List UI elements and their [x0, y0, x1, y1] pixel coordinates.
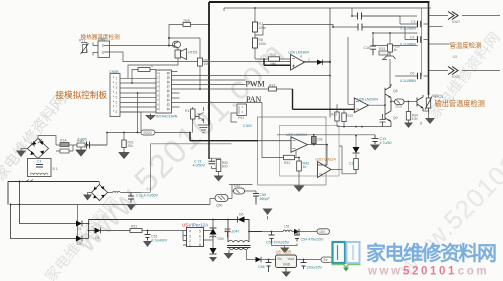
transistor Q8 top	[385, 84, 391, 105]
svg-text:5: 5	[116, 96, 118, 100]
wire R41 stubs	[298, 158, 300, 162]
ground right mid	[420, 122, 422, 125]
capacitor C55 560pF	[253, 194, 259, 205]
svg-text:9: 9	[157, 108, 159, 111]
thermistor RT1	[81, 43, 89, 55]
main board outline right edge	[428, 2, 430, 95]
svg-text:15: 15	[167, 95, 171, 98]
resistor R61 1K vertical	[198, 38, 203, 89]
capacitor C5 mid	[370, 38, 376, 55]
svg-text:1: 1	[308, 58, 310, 62]
ground under R20	[119, 148, 129, 159]
IC U5 VIPer12A	[183, 228, 207, 247]
wire buzzer top resistor net	[169, 25, 183, 46]
wire stub right y26.5	[429, 26, 443, 28]
svg-text:4.7u/400V: 4.7u/400V	[151, 239, 168, 243]
wire 18V rail	[262, 231, 317, 233]
svg-text:4: 4	[116, 91, 118, 95]
svg-text:5: 5	[199, 230, 201, 234]
op-amp U2C	[291, 137, 308, 153]
svg-text:L51: L51	[284, 225, 290, 229]
arrow IOUT1	[448, 12, 458, 20]
connector FS1	[237, 104, 247, 116]
wire buzzer bottom loop	[128, 60, 178, 78]
svg-text:R220: R220	[144, 131, 152, 135]
net label 5V	[321, 257, 333, 262]
winding marks on rail	[25, 180, 39, 182]
svg-text:接模拟控制板: 接模拟控制板	[56, 89, 108, 100]
pin numbers U5	[189, 230, 201, 248]
bus x209 lower segment	[208, 125, 210, 158]
svg-text:3: 3	[189, 235, 191, 239]
capacitor C30 ac input	[81, 142, 107, 149]
ground bus bottom	[198, 125, 209, 133]
svg-text:10K: 10K	[204, 62, 211, 66]
svg-text:6: 6	[199, 235, 201, 239]
resistor R34	[406, 102, 410, 123]
svg-text:PWM: PWM	[246, 80, 265, 89]
resistor R30	[388, 33, 393, 52]
svg-text:C6: C6	[410, 72, 414, 76]
wire PAN net	[172, 102, 263, 104]
wire junction x88	[88, 220, 90, 239]
diode D2	[76, 236, 89, 242]
wire U2D output	[331, 169, 342, 171]
svg-text:0.1U/BBN: 0.1U/BBN	[400, 79, 416, 83]
capacitor C4	[418, 36, 421, 42]
svg-text:1: 1	[189, 243, 191, 247]
vertical x348	[348, 37, 354, 104]
svg-text:D6: D6	[239, 213, 243, 217]
choke L2	[113, 191, 121, 192]
logo book icon left page	[333, 242, 346, 263]
capacitor C13	[372, 135, 379, 144]
svg-text:5V: 5V	[324, 258, 329, 262]
svg-text:8: 8	[116, 110, 118, 114]
svg-text:D2: D2	[77, 242, 81, 246]
resistor R8	[253, 32, 258, 59]
svg-text:U2D LM324: U2D LM324	[316, 158, 336, 162]
svg-text:CN6: CN6	[98, 38, 105, 42]
outer box oscillator A	[258, 117, 327, 185]
svg-text:.com: .com	[452, 266, 489, 278]
svg-text:500: 500	[222, 165, 228, 169]
svg-text:FS1: FS1	[238, 116, 244, 120]
pin labels FS1	[242, 105, 244, 114]
svg-text:100k: 100k	[259, 42, 267, 46]
cap C12	[380, 114, 386, 127]
svg-text:C31 4.7u/50V: C31 4.7u/50V	[136, 194, 159, 198]
svg-text:4k: 4k	[394, 48, 398, 52]
wire U2C minus inner	[258, 140, 291, 142]
capacitor C57	[301, 260, 307, 270]
wire PC1 to TL431	[228, 188, 234, 199]
svg-text:B 1: B 1	[53, 167, 58, 171]
svg-text:输出管温度检测: 输出管温度检测	[435, 99, 485, 108]
regulator U6 7805	[276, 255, 297, 272]
inner box oscillator B	[280, 126, 340, 177]
resistor R14 base	[191, 107, 196, 121]
wire IOUT2	[429, 70, 501, 72]
capacitor C56	[266, 260, 272, 273]
svg-text:L1047: L1047	[230, 230, 240, 234]
wire PWM thick to U2B	[293, 89, 355, 109]
wire cap3 feed	[395, 75, 429, 77]
wire viper input y230	[142, 230, 183, 232]
diode D11 on output	[317, 60, 323, 65]
capacitor C21	[209, 161, 216, 164]
node dot u2a in	[263, 58, 265, 60]
wire FS1 left bend	[231, 113, 237, 122]
resistor R42 vertical	[297, 161, 302, 184]
resistor R12 on PWM net	[269, 87, 277, 91]
wire thick U2C minus	[190, 133, 258, 141]
wire U2D minus link	[318, 145, 328, 165]
svg-text:14: 14	[167, 99, 171, 102]
svg-text:16: 16	[167, 90, 171, 93]
ground under C13	[370, 145, 380, 151]
diode D3	[89, 228, 131, 234]
ground under U1	[146, 114, 155, 120]
transformer T1	[227, 220, 251, 250]
wires CN2 to U1	[120, 78, 156, 112]
wire BD2 top	[99, 182, 101, 185]
rail lower y204	[11, 204, 211, 206]
op-amp U2B	[354, 98, 368, 113]
svg-text:10k: 10k	[317, 138, 323, 142]
svg-text:20k: 20k	[128, 144, 134, 148]
net label 18V	[317, 229, 330, 234]
wire U2B output	[369, 104, 386, 106]
svg-text:Vout: Vout	[288, 257, 294, 261]
resistor R10	[269, 57, 280, 61]
ground under C21R500	[214, 176, 224, 182]
wire U2A plus input thick	[264, 59, 291, 65]
svg-text:Q50: Q50	[216, 204, 223, 208]
wire R3 to C node	[85, 144, 107, 146]
IC U1 micro	[156, 70, 172, 113]
resistor R40 feedback	[312, 135, 317, 145]
pin numbers U1	[157, 72, 170, 111]
ground under C31	[127, 205, 136, 211]
node dot 169-45	[168, 45, 170, 47]
main board outline thick top edge	[209, 1, 430, 3]
diode D54	[256, 257, 262, 263]
resistor R6	[138, 68, 150, 72]
capacitor C51	[145, 231, 151, 241]
wire PAN drop to R41	[262, 103, 284, 158]
svg-text:17: 17	[167, 86, 171, 89]
net oval label N1	[107, 130, 191, 145]
svg-text:R31: R31	[379, 47, 385, 51]
wire node 169 branch y38	[169, 37, 200, 39]
svg-text:IOUT: IOUT	[452, 20, 460, 24]
inner rail wire y8	[224, 7, 431, 9]
bridge rectifier BD2	[92, 185, 108, 201]
svg-text:C16: C16	[364, 46, 371, 50]
svg-text:U6 7805: U6 7805	[276, 250, 293, 255]
svg-text:C4: C4	[410, 36, 414, 40]
arrow IOUT2	[448, 67, 458, 75]
bottom rail U2B block	[337, 126, 391, 128]
wire VCC stub x224	[223, 8, 225, 11]
wire U2A output	[305, 61, 331, 63]
svg-text:20: 20	[167, 72, 171, 75]
svg-text:5: 5	[157, 90, 159, 93]
node dot C21	[208, 157, 210, 159]
wire secondary right down	[247, 250, 254, 260]
primary snubber cap	[225, 229, 231, 238]
svg-text:U2B LM2904: U2B LM2904	[357, 98, 378, 102]
wire oval to R14 riser	[124, 119, 193, 140]
svg-text:IOUT: IOUT	[452, 75, 460, 79]
node dot R20 top	[123, 132, 125, 134]
wire snubber links	[56, 145, 77, 151]
buzzer B1	[175, 48, 187, 60]
capacitor C53	[269, 232, 275, 244]
wire pin4 drop to net oval	[137, 93, 139, 133]
wires U1 right pins long	[172, 72, 331, 108]
node dot 169-38	[168, 37, 170, 39]
junction dots misc	[384, 104, 386, 106]
ground under box	[294, 184, 305, 192]
svg-text:Q8: Q8	[393, 89, 398, 93]
ground secondary left	[224, 250, 234, 259]
wire y184 stub	[229, 185, 253, 189]
wire label feed y44	[429, 43, 450, 45]
svg-text:220u/16V: 220u/16V	[307, 266, 323, 270]
svg-text:6: 6	[151, 64, 153, 68]
node dot 137-93	[137, 92, 139, 94]
wire U2A minus input	[255, 58, 291, 60]
wire left col x10	[11, 205, 77, 239]
node dot 132-83	[131, 82, 133, 84]
wire to Q10 base	[409, 101, 418, 103]
svg-text:C53 470u/25V: C53 470u/25V	[266, 241, 290, 245]
line filter FL1	[28, 159, 52, 177]
svg-text:Q9: Q9	[393, 116, 398, 120]
svg-text:R12: R12	[269, 83, 275, 87]
capacitor C3	[418, 21, 421, 27]
svg-text:7: 7	[157, 99, 159, 102]
snubber coil	[210, 236, 217, 237]
node dot 87-145	[87, 144, 89, 146]
svg-text:18V: 18V	[319, 230, 326, 234]
svg-text:10K: 10K	[412, 117, 419, 121]
svg-text:4: 4	[157, 86, 159, 89]
ground BD2 left	[83, 193, 92, 201]
svg-text:R55: R55	[184, 19, 190, 23]
transistor Q5 buzzer driver	[169, 41, 181, 48]
wire CN1 pin2 bend	[110, 52, 331, 62]
logo url www.520101.com	[367, 266, 489, 278]
snubber resistor R1	[60, 143, 69, 147]
node dot 19-181	[19, 181, 21, 183]
svg-text:D1: D1	[77, 227, 81, 231]
thermistor RT3	[425, 95, 432, 112]
resistor R41 plus divider	[284, 155, 295, 159]
resistor R51	[130, 229, 142, 233]
ground 18V caps	[272, 244, 298, 254]
svg-text:19: 19	[167, 77, 171, 80]
svg-text:13: 13	[167, 104, 171, 107]
wire rail to primary right	[245, 220, 263, 232]
inductor L51	[283, 230, 292, 232]
node dot oval wire	[137, 132, 139, 134]
wire feedback lower y204 riser	[210, 199, 215, 205]
svg-text:C54 470u/25V: C54 470u/25V	[301, 238, 325, 242]
node dot R41	[298, 157, 300, 159]
ground under ZD5	[209, 257, 217, 262]
optocoupler PC1 oval	[215, 195, 228, 202]
resistor R3	[77, 143, 85, 147]
svg-text:560pF: 560pF	[260, 197, 271, 201]
transistor Q6	[195, 113, 204, 121]
svg-text:R51: R51	[131, 225, 137, 229]
svg-text:D3: D3	[95, 236, 99, 240]
svg-text:3: 3	[157, 81, 159, 84]
diode oval D13	[395, 99, 405, 105]
wire y45	[373, 45, 418, 47]
svg-text:12: 12	[167, 108, 171, 111]
svg-text:4.0/50V: 4.0/50V	[193, 164, 206, 168]
svg-text:IN74HC164N: IN74HC164N	[156, 115, 178, 119]
resistor R20 vertical	[122, 140, 126, 148]
logo book base green	[332, 265, 361, 272]
feedback rail y135	[277, 134, 375, 136]
transistor Q10 power	[417, 95, 423, 111]
wire bridge top loop	[21, 136, 56, 151]
resistor R43	[354, 153, 359, 174]
wire cap2 feed	[362, 27, 429, 40]
resistor R500	[216, 160, 221, 172]
node dot C51	[147, 230, 149, 232]
svg-text:1: 1	[116, 77, 118, 81]
svg-text:U2A LM2904: U2A LM2904	[288, 51, 309, 55]
node dot 408	[408, 101, 410, 103]
node dot 10-204	[10, 204, 12, 206]
capacitor C31	[128, 193, 141, 203]
svg-text:www.: www.	[367, 266, 408, 278]
svg-text:R32: R32	[331, 113, 337, 117]
logo book icon right page	[347, 242, 360, 263]
wire pin8 drop	[120, 112, 141, 132]
svg-text:C1: C1	[37, 160, 42, 164]
ground U6	[282, 272, 292, 278]
node dot u2d	[326, 144, 328, 146]
svg-text:18: 18	[167, 81, 171, 84]
svg-text:CN5B: CN5B	[109, 70, 119, 74]
wire R7R8 mid tap	[255, 25, 333, 36]
diode D14 vertical	[353, 136, 360, 153]
wire U2C output	[308, 144, 328, 146]
svg-text:R33: R33	[347, 114, 353, 118]
svg-text:R41: R41	[284, 161, 290, 165]
svg-text:U3: U3	[453, 55, 457, 59]
diode D5 up	[210, 228, 217, 235]
wire BD2 right with choke	[108, 192, 132, 194]
transistor Q7	[382, 52, 396, 60]
svg-text:D13: D13	[396, 105, 402, 109]
label T1	[225, 229, 240, 234]
wire top cap chain y16	[352, 8, 417, 16]
svg-text:D50: D50	[218, 237, 224, 241]
node dots feedback	[313, 134, 315, 136]
svg-text:6: 6	[116, 100, 118, 104]
svg-text:0.1U/BBN: 0.1U/BBN	[400, 43, 416, 47]
wire Q6 collector emitter	[203, 107, 205, 123]
wire R5 to bus	[191, 24, 210, 26]
svg-text:R1B: R1B	[77, 139, 84, 143]
svg-text:Vin: Vin	[277, 257, 282, 261]
svg-text:PAN: PAN	[246, 95, 261, 104]
node dot 356-135	[355, 135, 357, 137]
svg-text:4: 4	[300, 55, 302, 59]
svg-text:4.7u/50: 4.7u/50	[380, 141, 392, 145]
diode D6 on rail	[238, 217, 245, 223]
wire TL431 right	[245, 191, 257, 194]
thin vertical x422	[421, 8, 423, 76]
ground under C51	[143, 241, 152, 247]
diode D1	[76, 221, 89, 227]
svg-text:家电维修资料网: 家电维修资料网	[366, 241, 497, 265]
svg-text:7: 7	[116, 105, 118, 109]
svg-text:6: 6	[157, 95, 159, 98]
svg-text:2: 2	[157, 77, 159, 80]
main board outline thick left edge	[208, 2, 210, 125]
wire CN1 pin1 to node	[110, 45, 170, 47]
pins text U6	[277, 257, 294, 267]
svg-text:8: 8	[199, 243, 201, 247]
op-amp U2A	[291, 55, 305, 71]
svg-text:R14: R14	[185, 109, 191, 113]
svg-text:HTD5: HTD5	[188, 51, 197, 55]
svg-text:NTC3: NTC3	[434, 95, 443, 99]
svg-text:1: 1	[157, 72, 159, 75]
svg-text:管温度检测: 管温度检测	[450, 41, 482, 50]
ground under C30	[76, 145, 86, 156]
main AC rail y181	[8, 182, 99, 205]
rail viper top y219	[89, 219, 238, 221]
resistor R7	[253, 8, 258, 32]
snubber resistor R2	[60, 149, 69, 153]
zener ZD5	[210, 240, 217, 254]
node dots x330	[329, 61, 331, 63]
ground above output section	[263, 209, 273, 220]
op-amp U2D	[318, 162, 332, 178]
wire y33	[373, 33, 418, 38]
ground at bridge left	[16, 151, 26, 158]
svg-text:C56: C56	[258, 265, 265, 269]
wire U5 right to x213	[207, 220, 214, 241]
wire Q7 down	[389, 59, 391, 88]
resistor R5	[183, 23, 191, 27]
TL431 oval	[234, 188, 245, 194]
svg-text:R10: R10	[270, 53, 276, 57]
connector CN1	[93, 41, 110, 58]
svg-text:1k: 1k	[303, 165, 307, 169]
ground R34	[404, 123, 413, 129]
wire R61 bottom to PWM	[199, 88, 201, 90]
node dots 5V	[268, 259, 270, 261]
svg-text:VIPer12A: VIPer12A	[189, 223, 210, 228]
node dot C53	[271, 231, 273, 233]
resistor R33 vertical	[342, 109, 346, 126]
wire R6 branch	[132, 70, 156, 84]
transistor Q9 bottom	[385, 102, 391, 127]
svg-text:U5: U5	[182, 223, 188, 228]
diode D53	[294, 229, 299, 235]
